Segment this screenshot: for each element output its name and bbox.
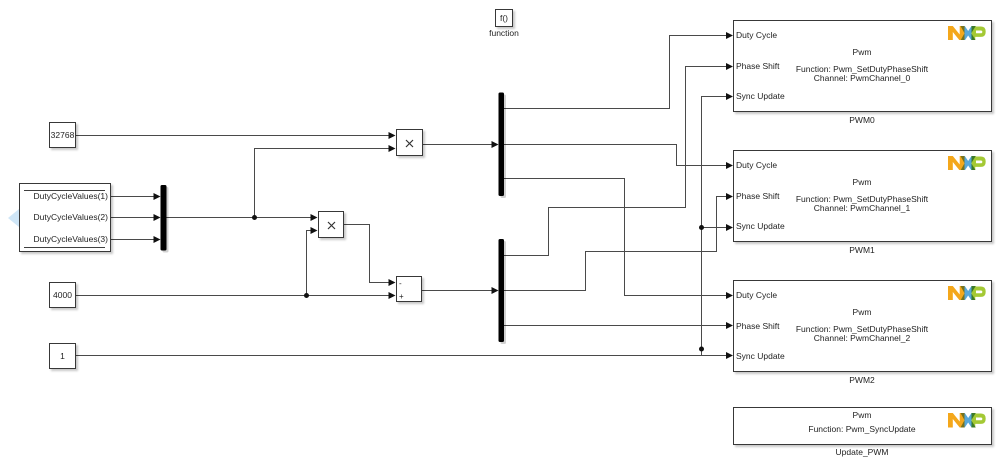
separator bottom	[24, 247, 105, 249]
label PWM2	[733, 375, 991, 386]
junction dot 4000 branch	[304, 293, 309, 298]
arrowhead Product1 in2	[389, 145, 396, 152]
arrowhead Product2 in2	[311, 227, 318, 234]
arrowhead PWM2 Phase Shift	[726, 322, 733, 329]
sum plus sign	[399, 291, 404, 302]
label PWM0	[733, 115, 991, 126]
arrowhead Sum minus	[389, 279, 396, 286]
constant 32768	[49, 122, 76, 148]
demux2 bar	[499, 239, 505, 342]
wire mux out to Product2 in1	[167, 217, 313, 219]
wire demux1 out3 to PWM2 Duty Cycle	[504, 179, 727, 296]
mux bar	[161, 185, 167, 251]
arrowhead PWM1 Phase Shift	[726, 193, 733, 200]
wire Sum out to demux2	[422, 290, 493, 292]
wire Product2 out to Sum minus	[344, 225, 390, 283]
label function	[474, 28, 534, 39]
block function f()	[495, 9, 513, 27]
label DutyCycleValues(1)	[19, 191, 108, 202]
wire demux1 out2 to PWM1 Duty Cycle	[504, 145, 727, 166]
arrowhead mux in3	[154, 236, 161, 243]
wire branch to Product1 in2	[255, 149, 391, 218]
wire constant 1 to PWM2 Sync Update	[76, 355, 727, 357]
NXP logo symbol definition	[0, 0, 1, 1]
block Product2 (x)	[318, 211, 345, 238]
wire DutyCycleValues(1) to mux	[111, 196, 155, 198]
block PWM1	[733, 150, 992, 243]
wire demux1 out1 to PWM0 Duty Cycle	[504, 36, 727, 109]
arrowhead demux2 in	[492, 287, 499, 294]
arrowhead PWM1 Sync Update	[726, 224, 733, 231]
demux1 bar	[499, 93, 505, 197]
label Update_PWM	[733, 447, 991, 458]
arrowhead Product1 in1	[389, 132, 396, 139]
arrowhead PWM2 Duty Cycle	[726, 292, 733, 299]
demux2 bar shadow	[501, 241, 507, 344]
product cross symbol 1	[405, 139, 414, 148]
wire sync vertical to PWM0 Sync Update	[702, 97, 728, 356]
NXP logo Update_PWM	[948, 413, 988, 428]
wire demux2 out1 to PWM0 Phase Shift	[504, 67, 727, 256]
mux bar shadow	[163, 187, 169, 253]
separator top	[24, 190, 105, 192]
label DutyCycleValues(3)	[19, 234, 108, 245]
wire branch to Product2 in2	[307, 231, 313, 296]
arrowhead PWM2 Sync Update	[726, 352, 733, 359]
wire DutyCycleValues(3) to mux	[111, 239, 155, 241]
wire 32768 to Product1 in1	[76, 135, 390, 137]
arrowhead demux1 in	[492, 141, 499, 148]
arrowhead Sum plus	[389, 292, 396, 299]
wire DutyCycleValues(2) to mux	[111, 217, 155, 219]
wire Product1 out to demux1	[422, 144, 493, 146]
wire sync branch to PWM1 Sync Update	[702, 227, 728, 229]
block Product1 (x)	[396, 129, 423, 156]
product cross symbol 2	[327, 221, 336, 230]
arrowhead PWM1 Duty Cycle	[726, 162, 733, 169]
arrowhead mux in2	[154, 214, 161, 221]
constant 4000	[49, 282, 76, 308]
NXP logo PWM2	[948, 286, 988, 301]
label PWM1	[733, 245, 991, 256]
annotation arrow (light blue)	[8, 209, 19, 227]
label DutyCycleValues(2)	[19, 212, 108, 223]
block Update_PWM	[733, 407, 992, 445]
block PWM2	[733, 280, 992, 373]
wire 4000 to Sum plus	[76, 295, 390, 297]
junction dot mux branch	[252, 215, 257, 220]
wire demux2 out2 to PWM1 Phase Shift	[504, 197, 727, 291]
arrowhead Product2 in1	[311, 214, 318, 221]
constant 1	[49, 343, 76, 369]
block PWM0	[733, 20, 992, 113]
junction dot sync to constant wire	[699, 347, 704, 352]
arrowhead PWM0 Phase Shift	[726, 63, 733, 70]
block DutyCycleValues	[19, 183, 111, 252]
arrowhead mux in1	[154, 193, 161, 200]
NXP logo PWM1	[948, 156, 988, 171]
wire demux2 out3 to PWM2 Phase Shift	[504, 325, 727, 327]
arrowhead PWM0 Sync Update	[726, 93, 733, 100]
block Sum	[396, 276, 423, 302]
NXP logo PWM0	[948, 26, 988, 41]
arrowhead PWM0 Duty Cycle	[726, 32, 733, 39]
demux1 bar shadow	[501, 95, 507, 199]
sum minus sign	[399, 278, 402, 289]
junction dot sync PWM1	[699, 225, 704, 230]
